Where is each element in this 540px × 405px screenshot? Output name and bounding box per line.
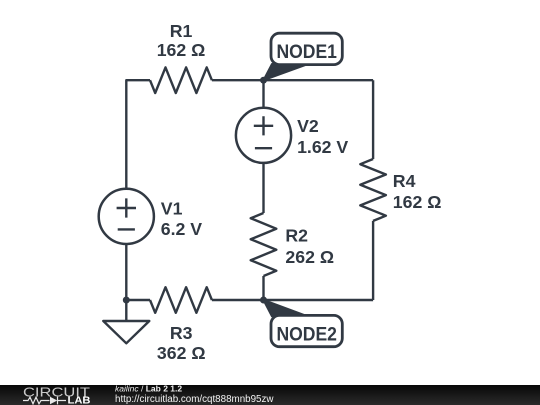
V2 plus sign xyxy=(254,116,273,135)
svg-text:NODE1: NODE1 xyxy=(276,41,337,63)
svg-text:http://circuitlab.com/cqt888mn: http://circuitlab.com/cqt888mnb95zw xyxy=(115,394,274,405)
V2 minus sign xyxy=(255,147,272,149)
svg-text:V1: V1 xyxy=(161,199,183,219)
wire left rail bottom xyxy=(125,244,127,300)
V1 minus sign xyxy=(118,228,135,230)
svg-text:V2: V2 xyxy=(297,116,319,136)
svg-text:6.2 V: 6.2 V xyxy=(161,219,203,239)
wire bottom rail left xyxy=(126,299,150,301)
ground xyxy=(103,300,149,343)
junction node2 dot xyxy=(260,297,267,304)
resistor R3 xyxy=(150,287,212,313)
svg-text:162 Ω: 162 Ω xyxy=(393,192,442,212)
svg-text:362 Ω: 362 Ω xyxy=(157,343,206,363)
node NODE1 callout pointer xyxy=(264,64,309,80)
wire left rail top xyxy=(126,80,150,189)
junction ground dot xyxy=(123,297,130,304)
svg-text:LAB: LAB xyxy=(68,396,91,405)
voltage source V2 xyxy=(236,108,291,163)
V1 plus sign xyxy=(117,198,136,217)
svg-text:R4: R4 xyxy=(393,171,416,191)
svg-text:R1: R1 xyxy=(170,21,193,41)
CircuitLab logo circuit squiggle xyxy=(23,397,66,405)
svg-text:262 Ω: 262 Ω xyxy=(285,247,334,267)
voltage source V1 xyxy=(99,189,154,244)
wire right rail top xyxy=(372,80,374,159)
wire top xyxy=(212,79,373,81)
svg-text:1.62 V: 1.62 V xyxy=(297,137,348,157)
resistor R2 xyxy=(251,213,277,276)
wire node1 stub xyxy=(262,80,264,108)
svg-text:NODE2: NODE2 xyxy=(276,323,337,345)
wire R2 to node2 xyxy=(262,276,264,300)
junction node1 dot xyxy=(260,77,267,84)
svg-text:R2: R2 xyxy=(285,225,308,245)
svg-text:162 Ω: 162 Ω xyxy=(157,40,206,60)
resistor R1 xyxy=(150,67,212,93)
node NODE2 callout box xyxy=(271,315,342,346)
svg-text:kailinc / Lab 2 1.2: kailinc / Lab 2 1.2 xyxy=(115,384,182,394)
svg-text:R3: R3 xyxy=(170,323,193,343)
wire V2 to R2 xyxy=(262,163,264,213)
footer bar xyxy=(0,385,540,405)
wire bottom rail right xyxy=(212,299,373,301)
wire right rail bottom xyxy=(372,221,374,300)
node NODE2 callout pointer xyxy=(264,300,309,316)
resistor R4 xyxy=(360,159,386,221)
node NODE1 callout box xyxy=(271,33,342,64)
